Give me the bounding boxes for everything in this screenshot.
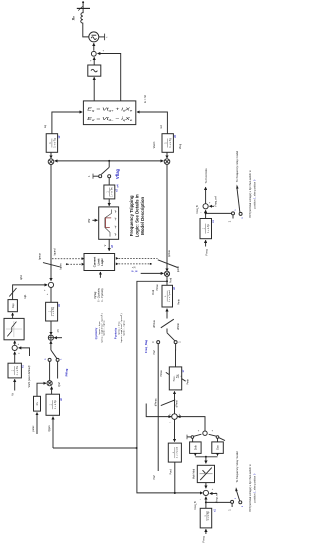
const input to SW1	[93, 175, 99, 177]
wire X2 down Ip main	[166, 164, 168, 271]
svg-text:Pref: Pref	[153, 475, 156, 480]
svg-text:Mult-Mod: Mult-Mod	[193, 468, 196, 479]
svg-text:VL_IN: VL_IN	[131, 271, 138, 273]
switch SW3 lever	[167, 333, 175, 341]
sum junction S1	[91, 51, 96, 56]
svg-text:1 + s·Trv: 1 + s·Trv	[111, 186, 114, 196]
svg-text:Delb: Delb	[195, 445, 197, 450]
svg-text:Vterm: Vterm	[153, 142, 156, 149]
svg-text:u(3): u(3)	[58, 329, 60, 333]
switch SWD1 lever	[194, 434, 202, 436]
svg-text:u(3): u(3)	[132, 267, 136, 269]
arrowheads CLL ports	[82, 257, 85, 260]
wire Qref to SW2	[57, 362, 59, 379]
svg-text:0 - Q priority: 0 - Q priority	[98, 287, 101, 302]
wire pelec bus bottom	[53, 447, 136, 449]
wire X3 to SW2	[49, 362, 51, 381]
limiter lever Ip	[158, 260, 178, 268]
svg-text:Vt: Vt	[10, 393, 14, 396]
wire Vfltr into VDL	[92, 219, 97, 221]
wire main bus to X1	[55, 160, 109, 162]
dashed wire CLL to Ipmin	[119, 263, 150, 265]
wire Eq into eqbox left	[52, 112, 82, 134]
wire junction to switch SWF1	[206, 212, 232, 214]
svg-text:1 + s·Tg: 1 + s·Tg	[52, 138, 56, 148]
svg-text:If Pf (terminal voltage) ≥ Fpr: If Pf (terminal voltage) ≥ Fpr then swit…	[248, 464, 252, 512]
wire Freq into filter top	[205, 240, 207, 246]
wire lagR to multR	[166, 152, 168, 158]
wire integrator to sum1	[93, 57, 95, 65]
wire lever to switch SW3	[166, 329, 168, 333]
wire Dua to bus	[217, 453, 219, 455]
wire Vref1 to SB	[19, 348, 30, 356]
wire eqbox to lag	[93, 77, 95, 101]
limiter lever dP2	[161, 400, 175, 406]
wire Kqv to sumA	[13, 285, 48, 300]
switch SW1 port0	[99, 175, 102, 178]
block PI Kpg	[169, 367, 181, 390]
block freq filter bottom	[200, 508, 212, 528]
wire SW3 to Kpg	[175, 344, 177, 367]
label frequency tripping note	[129, 194, 145, 237]
node junction bottom bus	[136, 447, 138, 449]
wire bus to source	[83, 26, 89, 37]
svg-text:Iqmin = - Iqmax: Iqmin = - Iqmax	[123, 320, 125, 336]
limiter lever Iq	[43, 263, 60, 267]
svg-text:Dua: Dua	[218, 445, 220, 450]
wire bus to Mult	[205, 457, 207, 464]
wire switch SW2 to SC	[50, 341, 52, 350]
svg-text:Pord: Pord	[152, 289, 155, 295]
wire Mult to SG	[205, 483, 207, 489]
wire Freq_ref to SF1	[210, 205, 215, 207]
svg-text:Pord: Pord	[170, 469, 173, 475]
block lag Tp q	[46, 394, 60, 415]
wire filter to SF1	[205, 210, 207, 218]
svg-text:pelec: pelec	[32, 425, 35, 432]
svg-text:dPmin: dPmin	[177, 322, 180, 330]
wire SWD1 to Delb	[192, 438, 194, 442]
svg-text:position 1, else position 0: position 1, else position 0	[253, 179, 257, 208]
block freq filter top	[200, 219, 212, 239]
wire lever to Tpord	[166, 309, 168, 319]
svg-text:Q priority: Q priority	[94, 327, 98, 339]
wire sumF1 to controls	[205, 187, 207, 204]
limiter lever dP1	[161, 319, 174, 328]
switch SW2 lever	[51, 350, 57, 358]
sum junction SA	[48, 282, 53, 287]
svg-text:Pmax: Pmax	[156, 284, 159, 291]
node tap Iqmin	[66, 263, 68, 265]
svg-text:Xe: Xe	[71, 16, 76, 21]
block lag Tiq	[46, 302, 58, 321]
svg-text:Iqh1: Iqh1	[20, 274, 23, 279]
sum junction SF	[172, 414, 178, 420]
wire SF to Tpord2	[174, 419, 176, 441]
wire SF to Kpg	[174, 391, 176, 413]
switch SW1 port1	[108, 175, 111, 178]
dashed wire Iqmin to CLL	[68, 263, 82, 265]
svg-text:1 + s·Trv: 1 + s·Trv	[16, 365, 19, 375]
voltage source V1	[89, 32, 99, 42]
switch SWD2 alt diagonal	[219, 438, 225, 441]
svg-text:vq4: vq4	[115, 210, 117, 213]
wire VL_IN to X4	[141, 272, 164, 274]
inductor Xe	[81, 8, 83, 26]
svg-text:dPmin: dPmin	[176, 400, 179, 408]
wire junction to switch SW1	[108, 161, 110, 167]
multiplier X2	[164, 159, 170, 165]
svg-text:Qgen: Qgen	[48, 425, 51, 432]
svg-text:Vfltr: Vfltr	[88, 218, 91, 223]
block filter Trv Vt	[8, 363, 21, 378]
svg-text:Iqmin: Iqmin	[60, 263, 63, 270]
sum junction SB	[12, 345, 17, 350]
multiplier X4	[164, 271, 169, 276]
switch SWD1 port	[191, 436, 194, 439]
svg-text:Vflag: Vflag	[115, 168, 120, 179]
block deadband dbd	[4, 318, 24, 339]
wire Pelec to SF	[146, 404, 171, 417]
switch SW2 port a	[48, 358, 51, 361]
block inv	[34, 396, 41, 411]
multiplier X3	[47, 381, 52, 386]
wire inv to X3	[37, 383, 46, 396]
wire SB to dbd	[14, 341, 16, 345]
wire sum1 to source	[93, 43, 95, 51]
wire Pord feedback long down	[137, 281, 203, 493]
svg-text:Freq_flt: Freq_flt	[194, 501, 197, 510]
svg-text:1 + s·Tp: 1 + s·Tp	[54, 400, 57, 410]
switch SWF2 lever	[237, 491, 240, 501]
svg-text:Vref1 (user defined): Vref1 (user defined)	[28, 365, 31, 387]
node square tap	[150, 263, 152, 265]
svg-text:s4: s4	[116, 184, 120, 188]
svg-text:1 - P priority: 1 - P priority	[101, 288, 104, 302]
svg-text:Pmin: Pmin	[186, 378, 189, 384]
svg-text:vq2: vq2	[115, 226, 117, 229]
svg-text:vq1: vq1	[115, 233, 117, 236]
block lag TG left	[46, 134, 57, 153]
switch SWF2 port1	[231, 500, 234, 503]
switch SWF1 port0	[239, 212, 242, 215]
block lag Tpord	[162, 285, 173, 307]
label switch note top	[248, 170, 257, 218]
svg-text:Freq_ref: Freq_ref	[214, 195, 218, 207]
svg-text:Iqmax: Iqmax	[39, 252, 42, 260]
svg-text:Pmax: Pmax	[160, 370, 163, 377]
sum junction SF1	[203, 204, 208, 209]
svg-text:Kpg +: Kpg +	[173, 375, 175, 381]
wire Vterm into inv	[36, 413, 38, 435]
sum junction SC	[48, 335, 53, 340]
svg-text:P priority: P priority	[114, 327, 118, 339]
wire Qgen into lag	[52, 417, 54, 448]
bus bar	[77, 7, 90, 9]
svg-text:Freq: Freq	[202, 536, 206, 543]
wire VDL out	[108, 239, 110, 250]
const bar SWD1	[187, 436, 191, 438]
block Mult rate	[197, 465, 214, 482]
svg-text:To frequency relay model: To frequency relay model	[235, 150, 239, 182]
node infinite bus arrow	[82, 2, 84, 8]
wire Vt into filter	[14, 379, 16, 390]
wire lagL to multL	[50, 152, 52, 158]
switch SW3 port1	[174, 341, 177, 344]
block VDL curve	[99, 207, 119, 239]
wire main bus to X2	[109, 160, 163, 162]
svg-text:Pord: Pord	[169, 277, 172, 283]
svg-text:Iqcmd: Iqcmd	[54, 248, 57, 255]
sum junction SH	[203, 431, 207, 435]
label Pqflag note	[94, 287, 104, 302]
block current limit logic	[84, 254, 115, 271]
wire Tpord2 down to bus	[174, 462, 176, 493]
svg-text:Pfflag: Pfflag	[64, 368, 68, 376]
svg-text:Ipmin: Ipmin	[177, 265, 180, 272]
block equations EQ1	[83, 101, 135, 125]
svg-text:Pref: Pref	[153, 350, 156, 355]
wire Vtfilt to SB	[14, 352, 16, 363]
wire junction to switch SWF2	[206, 501, 231, 503]
svg-text:Vreg: Vreg	[179, 143, 182, 149]
svg-text:1 + s·Tiq: 1 + s·Tiq	[52, 306, 55, 316]
source right terminal	[99, 36, 105, 38]
wire Delb to bus	[194, 453, 196, 455]
wire Freq into filter bottom	[205, 529, 207, 534]
wire Iq main X1 to sumA	[50, 165, 52, 281]
limiter lever Iqh1	[9, 288, 16, 297]
svg-text:1 + s·Tpord: 1 + s·Tpord	[168, 290, 171, 302]
svg-text:E = Vt: E = Vt	[143, 95, 147, 103]
svg-text:dPmax: dPmax	[155, 398, 158, 407]
svg-text:Iqmin = - Iqmax: Iqmin = - Iqmax	[104, 320, 106, 336]
block lag Tpord2	[168, 443, 181, 462]
wire Ed into eqbox right	[137, 112, 167, 134]
svg-text:1 + s·Tp: 1 + s·Tp	[207, 511, 210, 521]
svg-text:1 + s·Tp: 1 + s·Tp	[207, 224, 210, 234]
wire X4 to Pord block	[166, 276, 168, 285]
wire SWD2 to Dua	[217, 438, 219, 442]
switch SWF1 lever	[237, 188, 240, 212]
switch SW2 port b	[56, 358, 59, 361]
svg-text:Iql1: Iql1	[24, 294, 27, 299]
svg-text:1 + s·Tpord: 1 + s·Tpord	[176, 446, 179, 458]
wire feedback E to sum1	[98, 54, 121, 101]
block gain Kqv	[8, 300, 17, 312]
svg-text:Freq_flt: Freq_flt	[196, 205, 199, 214]
block Dua	[212, 442, 224, 454]
switch SW1 lever	[101, 167, 109, 174]
switch SWD2 lever	[209, 434, 217, 436]
block lag U1	[88, 65, 101, 76]
node junction pord bus	[174, 492, 176, 494]
wire Pref to SW3	[157, 344, 159, 471]
wire QT to X3	[51, 387, 53, 395]
svg-text:vq3: vq3	[115, 218, 117, 221]
wire filter to VDL	[108, 199, 110, 206]
wire lag Tiq to sumC	[50, 321, 52, 335]
svg-text:Freq_flag: Freq_flag	[144, 340, 148, 354]
node junction Pord	[166, 280, 168, 282]
svg-text:Ipmax: Ipmax	[168, 249, 171, 257]
switch SWF1 port1	[232, 212, 235, 215]
wire filter to SG	[205, 497, 207, 509]
wire SW1 to filter	[108, 178, 110, 185]
wire Vref0 to SC	[54, 337, 62, 339]
node junction freqbot	[205, 501, 207, 503]
wire dbd to Kqv	[12, 313, 14, 318]
svg-text:Kqv: Kqv	[11, 303, 15, 308]
node junction main	[108, 160, 110, 162]
multiplier X1	[48, 159, 54, 165]
svg-text:To Controls: To Controls	[204, 168, 208, 184]
svg-text:If Pf (terminal voltage) ≥ Fpr: If Pf (terminal voltage) ≥ Fpr then swit…	[248, 170, 252, 218]
wire delay bus	[195, 456, 217, 458]
dashed wire CLL to Ipmax	[119, 257, 158, 259]
node junction freqtop	[205, 212, 207, 214]
block filter Trv	[104, 185, 115, 199]
switch SWD2 port	[216, 436, 219, 439]
svg-text:Pmin: Pmin	[177, 299, 180, 305]
svg-text:To frequency relay model: To frequency relay model	[235, 451, 239, 483]
svg-text:Logic: See Details in: Logic: See Details in	[135, 194, 140, 237]
svg-text:Freq: Freq	[204, 249, 208, 256]
wire sumA to lag Tiq	[50, 288, 52, 303]
svg-text:Model Description: Model Description	[140, 196, 145, 234]
svg-text:Frequency Tripping: Frequency Tripping	[129, 195, 134, 236]
block Delb	[190, 442, 202, 454]
block lag TG right	[162, 134, 173, 153]
switch SW3 port0	[157, 341, 160, 344]
switch SWF2 port0	[239, 501, 242, 504]
wire Freq_ref to SG	[210, 493, 217, 495]
wire SH to SF	[178, 417, 205, 431]
svg-text:Pqflag:: Pqflag:	[94, 291, 97, 299]
wire into CLL bottom	[99, 272, 101, 278]
svg-text:Logic: Logic	[100, 258, 104, 266]
svg-text:dPmax: dPmax	[153, 319, 156, 328]
label switch note bottom	[248, 464, 256, 512]
svg-text:Qref: Qref	[58, 382, 61, 387]
svg-text:position 1, else position 0: position 1, else position 0	[253, 473, 257, 502]
sum junction SG	[203, 490, 208, 495]
svg-text:1 + s·Tg: 1 + s·Tg	[168, 138, 172, 148]
dashed wire Iqmax to CLL	[52, 258, 82, 260]
